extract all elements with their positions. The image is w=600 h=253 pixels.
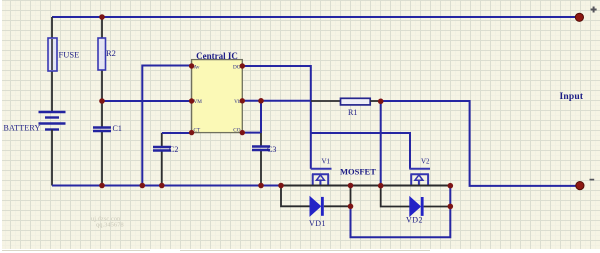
svg-text:V1: V1 <box>322 158 331 166</box>
wire top bus B+ <box>52 16 578 18</box>
svg-text:BATTERY: BATTERY <box>4 124 41 133</box>
transistor V1 (MOSFET) <box>311 169 332 185</box>
node R2 top <box>99 14 105 20</box>
capacitor C1 plates <box>93 128 111 132</box>
svg-text:Av: Av <box>194 65 200 71</box>
wire fuse lead vertical <box>51 17 53 112</box>
svg-text:VD2: VD2 <box>406 216 423 225</box>
wire C2 to IC CT pin <box>162 132 192 134</box>
transistor V1 arrow <box>316 175 324 180</box>
node C2 bottom <box>159 183 165 189</box>
svg-text:Input: Input <box>560 92 584 102</box>
svg-text:VD1: VD1 <box>309 219 326 228</box>
wire to minus terminal <box>381 101 580 186</box>
diode VD1 anode wire <box>281 186 310 207</box>
svg-text:C1: C1 <box>113 124 122 133</box>
wire gate branch to V2 <box>311 133 410 169</box>
svg-text:C3: C3 <box>267 145 276 154</box>
wire DO net: to MOSFET gates <box>242 66 310 169</box>
diode VD1 cathode bar <box>321 197 324 216</box>
wire R1 right stub <box>370 100 381 102</box>
terminal plus <box>575 13 583 21</box>
pin CT <box>189 130 194 135</box>
node Vb/C3 <box>258 98 264 104</box>
wire to R1 left (dark lead) <box>311 100 341 102</box>
node VD1 cathode <box>348 204 354 210</box>
svg-text:FUSE: FUSE <box>59 50 80 60</box>
wire bottom bus through MOSFETs (dark part) <box>281 185 450 187</box>
capacitor C2 leads <box>161 133 163 186</box>
wire bottom bus B- (blue part) <box>52 185 281 187</box>
svg-text:qq.345678: qq.345678 <box>96 222 124 229</box>
transistor V2 (MOSFET) <box>409 169 430 185</box>
page edge white strips <box>0 0 2 253</box>
pin Vb <box>240 98 245 103</box>
node C1 bottom <box>99 183 105 189</box>
node R1/bus <box>378 183 384 189</box>
svg-text:CT: CT <box>194 128 201 134</box>
wire bottom loop <box>351 186 451 238</box>
capacitor C1 leads <box>101 101 103 186</box>
fuse inner wire <box>51 39 53 70</box>
node V1 source <box>348 183 354 189</box>
svg-text:V2: V2 <box>421 158 430 166</box>
wire Vb net to gate crossing <box>242 100 311 102</box>
battery BATTERY plates <box>39 112 66 130</box>
diode VD2 triangle <box>410 197 421 216</box>
wire VD1 cathode to node <box>324 205 351 207</box>
pin VM <box>189 98 194 103</box>
capacitor C3 leads <box>260 133 262 186</box>
diode VD2 anode wire <box>381 186 410 207</box>
pin Av <box>189 63 194 68</box>
wire Av net: vertical + horizontal to IC pin <box>142 66 191 186</box>
node R2/C1/VM <box>99 98 105 104</box>
svg-text:Central IC: Central IC <box>196 51 238 61</box>
IC U1 body Central IC <box>192 60 243 133</box>
wire R1 junction down to bus <box>380 101 382 186</box>
node Av bottom <box>140 183 146 189</box>
label minus sign <box>590 179 595 181</box>
wire node R2/C1 to IC VM pin <box>102 100 192 102</box>
faint bottom edge marks <box>2 250 430 252</box>
wire C3 vertical from Vb node <box>260 101 262 133</box>
svg-text:DO: DO <box>233 65 241 71</box>
wire V1 source node down <box>350 186 352 207</box>
node C3 bottom <box>258 183 264 189</box>
svg-text:VM: VM <box>194 99 203 105</box>
junction node dots <box>99 14 453 209</box>
resistor R1 body <box>341 98 371 105</box>
diode VD1 triangle <box>310 197 321 216</box>
diode VD2 cathode bar <box>421 197 424 216</box>
svg-text:R1: R1 <box>348 108 357 117</box>
wire CO pin stub <box>242 132 261 134</box>
svg-text:MOSFET: MOSFET <box>340 167 376 177</box>
node R1 right <box>378 99 384 105</box>
svg-text:R2: R2 <box>106 48 116 58</box>
resistor R2 body <box>98 38 106 70</box>
svg-text:C2: C2 <box>169 145 178 154</box>
capacitor C3 plates <box>252 147 270 151</box>
pin DO <box>240 63 245 68</box>
node V2 right <box>448 183 454 189</box>
fuse F1 body <box>48 38 57 71</box>
transistor V2 arrow <box>415 175 423 180</box>
node VD2 cathode <box>448 204 454 210</box>
node VD1 anode tap <box>278 183 284 189</box>
terminal minus <box>576 182 584 190</box>
label plus sign <box>591 7 597 13</box>
capacitor C2 plates <box>153 147 171 151</box>
wire VD2 cathode to node <box>424 206 451 208</box>
pin CO <box>240 130 245 135</box>
wire battery negative lead down to bottom bus <box>51 130 53 186</box>
wire R2 top lead <box>101 17 103 101</box>
